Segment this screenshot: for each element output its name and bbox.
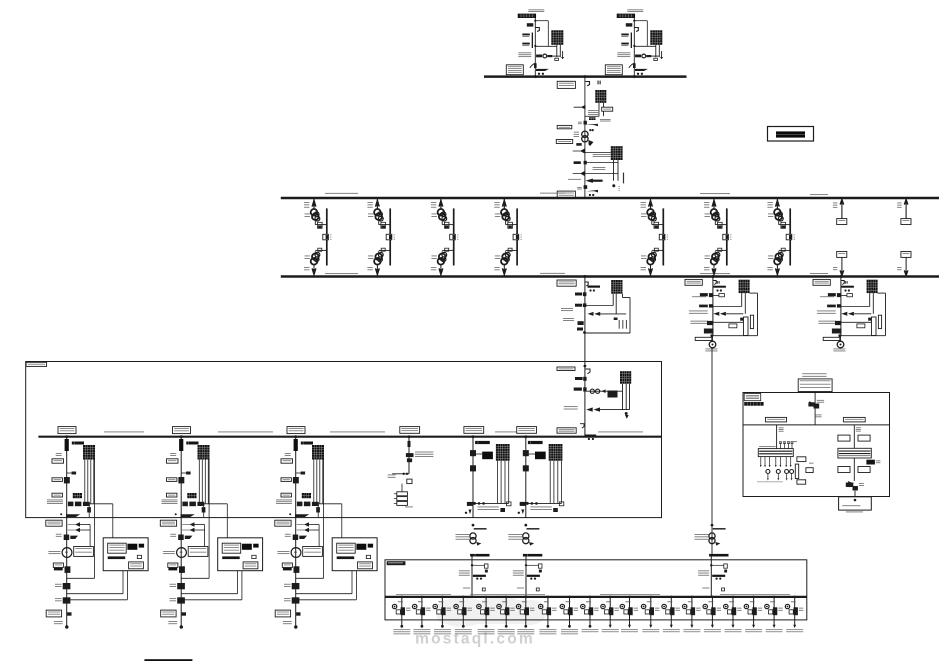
label box LB4 [556, 140, 572, 144]
main LV switchboard enclosure [26, 362, 662, 518]
ring feeder F4 [494, 198, 521, 277]
diesel generator set GEN3 [275, 518, 377, 629]
outgoing circuit tap 11 [601, 596, 619, 633]
panel internal bus [743, 424, 890, 426]
incoming utility feeder NO.2 [605, 9, 663, 78]
terminal strip tree [757, 425, 797, 482]
ring feeder F6 [704, 198, 731, 277]
panel label L1 [766, 417, 787, 422]
transformer T1 [585, 90, 606, 116]
11kV main bus A [484, 75, 687, 78]
panel outgoing box [839, 491, 872, 513]
equipment schedule box [768, 127, 814, 142]
panel feed note [802, 373, 826, 376]
spare feeder SP1 [833, 198, 847, 277]
generator incomer G1 [47, 427, 113, 579]
label box LB5 [557, 191, 575, 198]
outgoing circuit tap 16 [703, 596, 721, 633]
breaker CB1 [576, 140, 593, 146]
diesel generator set GEN1 [46, 518, 148, 629]
note text N1 [588, 110, 600, 115]
aux contacts [589, 129, 594, 131]
outgoing circuit tap 10 [581, 596, 599, 633]
fuse switch F2 [573, 172, 618, 176]
feeder riser TX1 to MDB [695, 348, 729, 557]
incoming cable metering [698, 557, 727, 597]
relay arrow R1 [574, 106, 585, 109]
substation SS1 [557, 275, 630, 363]
earthing switch ES1 [578, 121, 598, 127]
outgoing circuit tap 3 [433, 596, 451, 635]
aux device column [795, 457, 813, 484]
LV main bus D [38, 432, 661, 437]
ring feeder F2 [367, 198, 394, 277]
surge arrester SA1 [589, 117, 611, 121]
earthing switch ES2 [577, 185, 598, 196]
note text N2 [593, 167, 606, 170]
outgoing circuit tap 15 [683, 596, 701, 633]
outgoing circuit tap 6 [497, 596, 515, 635]
MDB main bus [385, 594, 807, 597]
outgoing circuit tap 12 [620, 596, 638, 633]
distribution transformer feeder TX2 [508, 427, 564, 557]
watermark logo [415, 595, 546, 648]
transformer T2 [611, 146, 623, 181]
substation SS2 [685, 275, 758, 351]
ring feeder F3 [431, 198, 458, 277]
ring feeder F5 [641, 198, 668, 277]
panel nameplate [744, 394, 763, 406]
incoming cable metering [513, 557, 542, 597]
breaker CB2 [574, 161, 618, 165]
ring feeder F7 [767, 198, 794, 277]
outgoing circuit tap 7 [516, 596, 534, 635]
changeover link [568, 173, 624, 191]
label box LB3 [557, 125, 572, 128]
generator incomer G3 [276, 427, 342, 579]
incoming utility feeder NO.1 [506, 9, 564, 78]
outgoing circuit tap 8 [539, 596, 557, 635]
diesel generator set GEN2 [160, 518, 262, 629]
label box LB2 [602, 107, 613, 111]
outgoing circuit tap 5 [477, 596, 495, 635]
distribution transformer feeder TX1 [456, 427, 512, 557]
right device tree [838, 425, 881, 491]
ring feeder F1 [304, 198, 331, 277]
generator incomer G2 [162, 427, 228, 579]
11kV bus section C (bottom) [281, 273, 939, 277]
LV transformer bay TX0 [557, 363, 631, 441]
11kV bus section B (top) [281, 193, 939, 198]
panel label L2 [843, 417, 865, 422]
outgoing circuit tap 9 [560, 596, 578, 635]
DC battery feeder [388, 427, 434, 508]
outgoing circuit tap 4 [454, 596, 472, 635]
outgoing circuit tap 2 [413, 596, 431, 635]
outgoing circuit tap 14 [662, 596, 680, 633]
outgoing circuit tap 19 [765, 596, 783, 633]
outgoing circuit tap 1 [392, 596, 410, 635]
final distribution board enclosure [385, 560, 807, 620]
panel feed box [798, 379, 832, 392]
spare feeder SP2 [897, 198, 911, 277]
substation SS3 [813, 275, 886, 351]
CT metering M1 [574, 131, 589, 142]
incoming cable metering [459, 557, 488, 597]
svg-text:mostaql.com: mostaql.com [415, 631, 535, 648]
outgoing circuit tap 17 [724, 596, 742, 633]
control panel enclosure [743, 393, 890, 497]
main transformer feeder wire [583, 75, 586, 198]
outgoing circuit tap 18 [744, 596, 762, 633]
outgoing circuit tap 20 [785, 596, 803, 633]
fuse switch F1 [573, 149, 611, 157]
disconnect switch S1 [586, 81, 601, 86]
label box LB1 [557, 81, 575, 88]
outgoing circuit tap 13 [641, 596, 659, 633]
title block edge [144, 659, 192, 661]
panel incomer wire [808, 392, 824, 425]
